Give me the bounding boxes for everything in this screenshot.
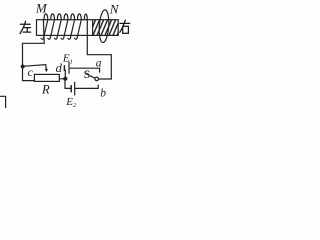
node c junction dot: [21, 65, 25, 69]
coil turn 1 arc: [44, 14, 48, 20]
wiper arrowhead: [45, 69, 48, 72]
svg-text:b: b: [100, 88, 106, 100]
svg-text:d: d: [56, 61, 63, 75]
bottom-left figure box corner: [0, 96, 6, 108]
label you (right) drawn glyph: [120, 20, 130, 33]
battery E2 short plate: [70, 86, 72, 92]
svg-text:N: N: [109, 2, 120, 17]
resistor R box: [34, 74, 59, 81]
coil turn 7 arc: [84, 14, 87, 20]
coil winding: lead-in: [42, 20, 45, 43]
label zuo (left) drawn glyph: [20, 21, 31, 33]
battery E1 leads: [63, 70, 66, 79]
iron core bar MN: [37, 20, 119, 36]
coil turn 5 arc: [71, 14, 75, 20]
svg-text:S: S: [84, 69, 90, 81]
ring (ellipse) around core: [98, 10, 110, 43]
wire: coil left terminal: [23, 43, 45, 80]
switch S blade: [90, 76, 95, 78]
coil turn 3 arc: [57, 14, 61, 20]
wire E1 to contact a: [70, 68, 100, 72]
svg-text:a: a: [96, 57, 102, 69]
switch S pole circle: [95, 77, 99, 81]
svg-text:E1: E1: [62, 52, 73, 65]
coil turn 5 diagonal: [68, 20, 75, 40]
node d junction dot: [63, 77, 67, 81]
battery E1 short plate: [63, 66, 65, 71]
coil turn 3 diagonal: [55, 20, 62, 40]
coil turn 4 diagonal: [61, 20, 68, 40]
coil turn 6 diagonal: [75, 20, 82, 40]
coil turn 2 arc: [51, 14, 55, 20]
svg-text:R: R: [41, 83, 50, 97]
coil turn 1 diagonal: [41, 20, 48, 40]
hatch boundary line: [92, 20, 94, 36]
svg-text:E2: E2: [65, 96, 77, 108]
svg-text:M: M: [35, 1, 48, 16]
battery E2 long plate: [74, 82, 76, 95]
hatched right section of core: [89, 19, 124, 36]
coil turn 2 diagonal: [48, 20, 55, 40]
coil turn 4 arc: [64, 14, 68, 20]
svg-text:c: c: [28, 65, 34, 79]
wire c to wiper with arrow: [23, 65, 47, 70]
coil turn 6 arc: [78, 14, 82, 20]
battery E1 long plate: [68, 62, 70, 73]
resistor right lead: [59, 78, 65, 80]
wire E2 to contact b: [75, 85, 98, 88]
battery E2 leads: [65, 79, 71, 89]
wire: coil right terminal down and around to switch pole: [87, 20, 111, 79]
